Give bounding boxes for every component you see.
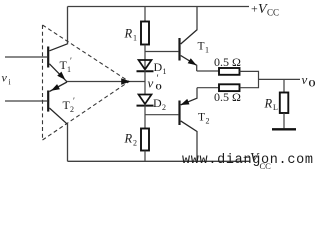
svg-text:0.5 Ω: 0.5 Ω — [214, 55, 241, 69]
svg-text:L: L — [273, 103, 278, 112]
svg-text:′: ′ — [73, 96, 75, 106]
svg-text:www.diangon.com: www.diangon.com — [182, 153, 313, 168]
svg-text:v: v — [302, 72, 308, 87]
svg-text:D: D — [154, 60, 163, 74]
transistor T1' label — [60, 56, 73, 74]
wire junction to T1 base — [145, 51, 178, 53]
wire input bottom to T2' base — [5, 100, 47, 102]
wire T1 emitter to 0.5ohm top — [197, 70, 219, 72]
svg-text:1: 1 — [163, 67, 167, 76]
wire top rail +Vcc — [68, 6, 250, 8]
wire D2 to R2 (junction to T2 base) — [144, 104, 146, 129]
wire junction to T2 base — [145, 114, 178, 116]
transistor T1 — [180, 7, 198, 72]
svg-text:R: R — [124, 27, 133, 41]
svg-text:2: 2 — [162, 103, 166, 112]
wire D1 to D2 — [144, 70, 146, 95]
wire emitters junction to node vo' with signal arrow — [67, 81, 145, 83]
transistor T2 label — [198, 112, 210, 126]
wire T2 emitter to 0.5ohm bottom — [197, 87, 219, 89]
wire junction down to RL — [283, 79, 285, 92]
svg-text:v: v — [2, 71, 8, 85]
svg-text:′: ′ — [70, 56, 72, 66]
op-amp dashed triangle block — [43, 25, 130, 140]
wire output to vo terminal — [259, 78, 301, 80]
wire R2 to -Vcc rail — [144, 151, 146, 162]
svg-text:2: 2 — [133, 139, 137, 148]
wire bottom rail -Vcc — [68, 160, 251, 162]
transistor T2 — [180, 88, 198, 162]
svg-text:R: R — [124, 132, 133, 146]
node vi label — [2, 71, 12, 87]
resistor R1 — [141, 22, 149, 45]
resistor R1 label — [124, 27, 138, 43]
svg-text:2: 2 — [206, 117, 210, 126]
wire R1 to D1 (junction to T1 base) — [144, 45, 146, 70]
diode D2 — [137, 95, 154, 106]
svg-text:O: O — [156, 83, 162, 92]
svg-text:v: v — [148, 76, 154, 91]
wire RL to ground — [283, 113, 285, 128]
svg-text:+: + — [251, 2, 258, 16]
resistor 0.5 ohm bottom — [219, 84, 240, 91]
transistor T1' — [48, 7, 67, 82]
svg-text:T: T — [198, 41, 205, 53]
svg-text:1: 1 — [133, 34, 137, 43]
node vo' label — [148, 74, 162, 92]
svg-text:1: 1 — [205, 46, 209, 55]
svg-text:0.5 Ω: 0.5 Ω — [214, 90, 241, 104]
svg-text:R: R — [264, 97, 273, 111]
transistor T2' — [48, 82, 67, 161]
svg-text:O: O — [309, 79, 316, 89]
wire 0.5ohm outputs join — [240, 71, 259, 87]
node vo label — [302, 72, 316, 89]
wire +Vcc rail to R1 — [144, 7, 146, 22]
diode D2 label — [153, 96, 166, 112]
svg-text:D: D — [153, 96, 162, 110]
resistor 0.5 ohm top — [219, 68, 240, 75]
svg-text:T: T — [198, 112, 205, 124]
resistor R2 label — [124, 132, 138, 148]
resistor RL label — [264, 97, 279, 113]
svg-text:CC: CC — [267, 8, 279, 18]
wire input top to T1' base — [5, 56, 47, 58]
resistor RL — [280, 93, 289, 114]
diode D1 label — [154, 60, 167, 76]
power -Vcc label (partially hidden by watermark) — [243, 150, 271, 171]
diode D1 — [137, 60, 154, 71]
ground — [272, 128, 296, 130]
svg-text:2: 2 — [70, 105, 74, 114]
svg-text:1: 1 — [67, 65, 71, 74]
transistor T2' label — [63, 96, 76, 114]
transistor T1 label — [198, 41, 210, 55]
resistor R2 — [141, 129, 149, 151]
power +Vcc label — [251, 2, 279, 18]
